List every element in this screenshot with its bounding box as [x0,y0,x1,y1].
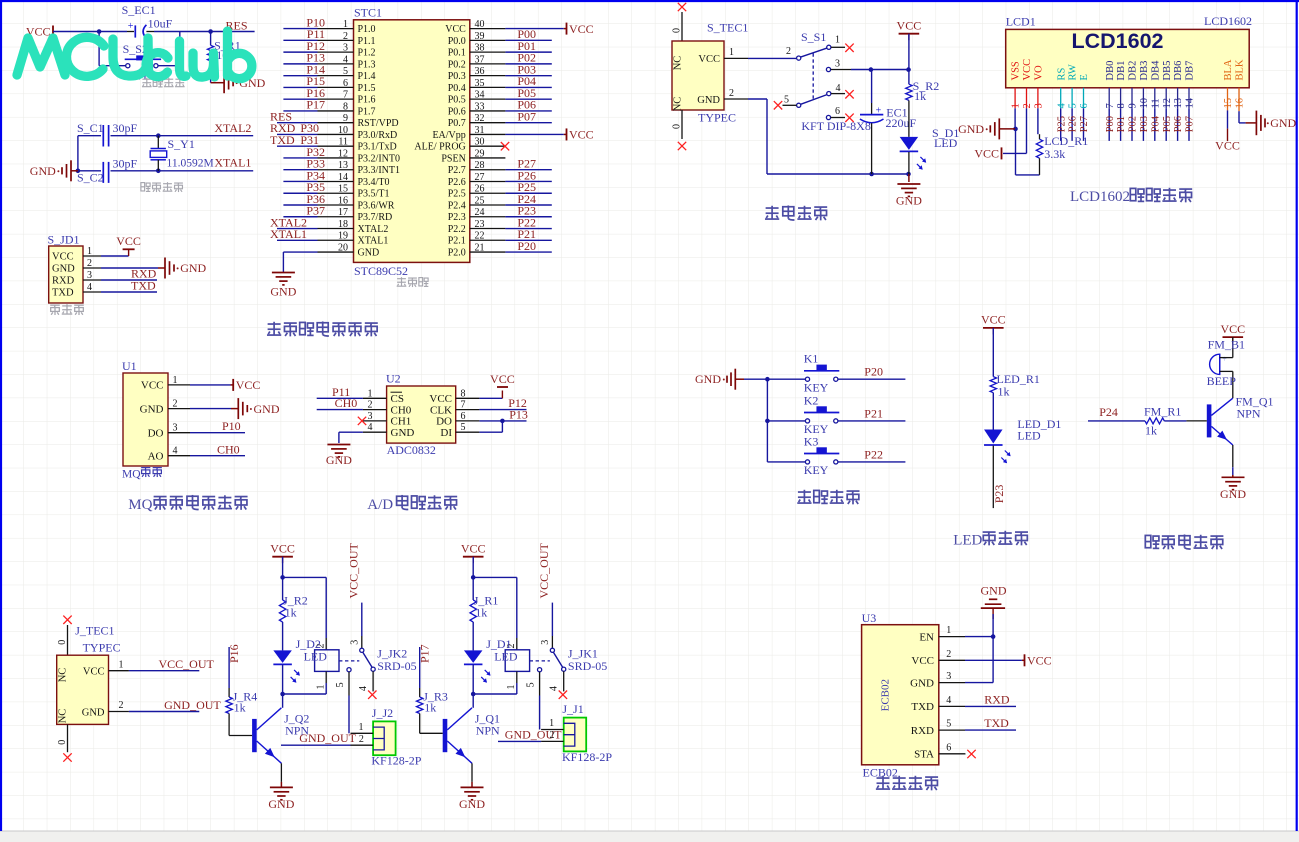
svg-text:0: 0 [57,740,68,745]
svg-text:12: 12 [338,148,348,159]
svg-text:6: 6 [1079,103,1090,108]
svg-text:XTAL2: XTAL2 [214,121,251,135]
svg-text:RXD: RXD [52,276,75,287]
svg-text:VCC: VCC [429,393,452,405]
svg-text:VCC: VCC [569,22,594,36]
svg-text:P1.5: P1.5 [358,83,376,94]
svg-text:GND: GND [896,194,922,208]
svg-text:1: 1 [1011,103,1022,108]
svg-text:S_S1: S_S1 [801,30,826,44]
svg-text:GND: GND [459,797,485,811]
svg-text:1: 1 [119,659,124,670]
svg-text:K1: K1 [804,352,819,366]
svg-text:1: 1 [729,47,734,58]
svg-text:LCD1602: LCD1602 [1071,29,1163,53]
svg-text:VCC: VCC [897,19,922,33]
svg-text:4: 4 [358,686,369,691]
svg-text:1: 1 [506,685,517,690]
svg-text:21: 21 [475,242,485,253]
svg-text:P06: P06 [1173,116,1184,132]
svg-text:S_C1: S_C1 [77,121,104,135]
svg-text:LED: LED [494,649,518,663]
svg-text:VCC: VCC [1027,654,1052,668]
svg-text:32: 32 [475,113,485,124]
svg-text:E: E [1079,74,1090,80]
svg-text:KF128-2P: KF128-2P [562,750,612,764]
svg-text:VCC: VCC [116,234,141,248]
svg-text:VCC: VCC [461,542,486,556]
svg-text:13: 13 [1173,98,1184,109]
svg-text:LCD1: LCD1 [1006,15,1036,29]
svg-text:DO: DO [436,416,452,428]
svg-text:23: 23 [475,219,485,230]
svg-text:P2.4: P2.4 [448,200,466,211]
svg-text:P1.1: P1.1 [358,36,376,47]
svg-text:P0.0: P0.0 [448,36,466,47]
svg-text:5: 5 [526,682,537,687]
svg-text:KFT DIP-8X8: KFT DIP-8X8 [801,119,870,133]
svg-text:3: 3 [173,423,178,434]
svg-text:RXD: RXD [911,725,934,737]
svg-text:P0.6: P0.6 [448,106,466,117]
svg-text:2: 2 [173,399,178,410]
svg-text:STC89C52: STC89C52 [354,264,408,278]
svg-text:5: 5 [946,719,951,730]
svg-text:GND: GND [958,122,984,136]
svg-text:RW: RW [1068,64,1079,80]
svg-text:NC: NC [57,668,68,683]
svg-text:GND: GND [391,427,415,439]
svg-text:P21: P21 [864,406,883,420]
svg-text:2: 2 [946,649,951,660]
svg-text:U2: U2 [386,372,401,386]
svg-text:DB5: DB5 [1162,61,1173,81]
svg-text:MQ: MQ [122,469,141,481]
svg-text:VCC_OUT: VCC_OUT [347,542,361,598]
svg-text:8: 8 [461,388,466,399]
svg-text:VCC: VCC [445,24,466,35]
svg-text:VCC: VCC [1215,138,1240,152]
svg-text:P0.7: P0.7 [448,118,466,129]
svg-text:4: 4 [836,83,841,94]
svg-text:P3.7/RD: P3.7/RD [358,212,393,223]
svg-text:GND: GND [52,264,75,275]
svg-text:STA: STA [914,749,934,761]
svg-text:U1: U1 [122,359,137,373]
svg-text:4: 4 [946,695,951,706]
svg-text:TXD: TXD [911,701,934,713]
svg-text:GND_OUT: GND_OUT [299,731,356,745]
svg-text:P2.2: P2.2 [448,224,466,235]
svg-text:15: 15 [1223,98,1234,109]
svg-text:2: 2 [368,400,373,411]
svg-text:DO: DO [148,427,164,439]
svg-text:P2.1: P2.1 [448,236,466,247]
svg-text:DB6: DB6 [1173,61,1184,81]
svg-text:1k: 1k [234,701,246,715]
svg-text:VCC: VCC [490,372,515,386]
svg-text:30pF: 30pF [113,157,138,171]
svg-text:LED: LED [953,533,982,549]
svg-text:P10: P10 [222,419,241,433]
svg-text:P0.2: P0.2 [448,59,466,70]
svg-text:6: 6 [946,743,951,754]
svg-text:RXD: RXD [984,692,1010,706]
svg-text:GND: GND [254,402,280,416]
svg-text:TXD: TXD [52,288,74,299]
svg-text:AO: AO [148,450,164,462]
svg-text:S_JD1: S_JD1 [48,233,80,247]
svg-text:LED: LED [934,136,958,150]
svg-text:27: 27 [475,172,485,183]
svg-text:30pF: 30pF [113,121,138,135]
svg-text:VCC: VCC [974,147,999,161]
svg-text:GND: GND [358,247,380,258]
svg-text:XTAL1: XTAL1 [270,227,307,241]
svg-text:FM_B1: FM_B1 [1208,338,1245,352]
svg-text:GND: GND [695,372,721,386]
svg-text:P17: P17 [306,98,325,112]
svg-text:STC1: STC1 [354,6,382,20]
svg-text:P0.5: P0.5 [448,95,466,106]
svg-text:KEY: KEY [804,380,829,394]
svg-text:28: 28 [475,160,485,171]
svg-text:P27: P27 [1079,116,1090,132]
svg-text:4: 4 [368,422,373,433]
svg-text:6: 6 [461,411,466,422]
svg-text:2: 2 [729,88,734,99]
svg-text:8: 8 [343,101,348,112]
svg-text:TYPEC: TYPEC [83,641,121,655]
svg-text:P20: P20 [517,239,536,253]
svg-text:GND: GND [30,164,56,178]
svg-text:1: 1 [359,722,364,733]
svg-text:1k: 1k [424,701,436,715]
svg-text:14: 14 [338,172,348,183]
svg-text:VCC_OUT: VCC_OUT [537,542,551,598]
svg-text:P03: P03 [1139,116,1150,132]
svg-text:S_EC1: S_EC1 [122,3,156,17]
svg-text:3: 3 [835,58,840,69]
svg-text:XTAL1: XTAL1 [358,236,389,247]
svg-text:P0.4: P0.4 [448,83,466,94]
svg-text:P22: P22 [864,447,883,461]
svg-text:TXD: TXD [131,278,156,292]
svg-text:40: 40 [475,19,485,30]
svg-text:S_TEC1: S_TEC1 [707,21,748,35]
svg-text:0: 0 [57,640,68,645]
svg-text:14: 14 [1185,97,1196,108]
svg-text:3: 3 [87,270,92,281]
svg-text:4: 4 [1056,103,1067,109]
svg-text:DB3: DB3 [1139,61,1150,81]
svg-text:GND: GND [1270,116,1296,130]
svg-text:P1.6: P1.6 [358,95,376,106]
svg-text:RST/VPD: RST/VPD [358,118,399,129]
svg-text:EN: EN [919,631,934,643]
svg-text:CH1: CH1 [391,416,412,428]
svg-text:DB7: DB7 [1185,61,1196,81]
svg-text:4: 4 [343,54,348,65]
svg-text:LCD_R1: LCD_R1 [1044,134,1088,148]
svg-text:P23: P23 [992,485,1006,504]
svg-text:BLK: BLK [1235,59,1246,80]
svg-text:CH0: CH0 [391,404,412,416]
svg-text:220uF: 220uF [886,116,917,130]
svg-text:3: 3 [368,411,373,422]
svg-text:5: 5 [784,94,789,105]
svg-text:9: 9 [1128,103,1139,108]
svg-text:5: 5 [335,682,346,687]
svg-text:GND: GND [180,261,206,275]
svg-text:29: 29 [475,148,485,159]
svg-text:GND: GND [326,453,352,467]
svg-text:P0.3: P0.3 [448,71,466,82]
svg-text:30: 30 [475,137,485,148]
svg-text:CH0: CH0 [217,442,240,456]
svg-text:BEEP: BEEP [1207,374,1237,388]
svg-text:P26: P26 [1068,116,1079,132]
svg-text:22: 22 [475,231,485,242]
svg-text:7: 7 [1105,103,1116,108]
svg-text:P3.5/T1: P3.5/T1 [358,189,390,200]
svg-text:XTAL1: XTAL1 [214,156,251,170]
svg-text:P1.2: P1.2 [358,48,376,59]
svg-text:P1.3: P1.3 [358,59,376,70]
svg-text:P2.7: P2.7 [448,165,466,176]
svg-text:25: 25 [475,195,485,206]
svg-text:2: 2 [1022,103,1033,108]
svg-text:SRD-05: SRD-05 [568,659,607,673]
svg-text:P01: P01 [1116,116,1127,132]
svg-text:2: 2 [119,700,124,711]
svg-text:12: 12 [1162,98,1173,109]
svg-text:K2: K2 [804,393,819,407]
svg-text:DB0: DB0 [1105,61,1116,81]
svg-text:FM_R1: FM_R1 [1144,404,1181,418]
svg-text:1: 1 [368,388,373,399]
svg-text:2: 2 [786,46,791,57]
svg-text:DB2: DB2 [1128,61,1139,81]
svg-text:CH0: CH0 [335,396,358,410]
svg-text:+: + [128,21,134,32]
svg-text:1k: 1k [998,384,1010,398]
svg-text:7: 7 [343,90,348,101]
svg-text:GND: GND [910,677,934,689]
svg-text:7: 7 [461,400,466,411]
svg-text:26: 26 [475,184,485,195]
svg-text:P07: P07 [517,109,536,123]
svg-text:1k: 1k [914,89,926,103]
svg-text:6: 6 [343,78,348,89]
svg-text:LED: LED [1017,429,1041,443]
svg-text:J_J1: J_J1 [562,702,583,716]
svg-text:10uF: 10uF [148,16,173,30]
svg-text:DI: DI [440,427,452,439]
svg-text:24: 24 [475,207,485,218]
svg-text:DB4: DB4 [1150,60,1161,81]
svg-text:3: 3 [540,640,551,645]
svg-text:+: + [1222,355,1227,364]
svg-text:P07: P07 [1185,116,1196,132]
svg-text:2: 2 [550,730,555,741]
svg-text:J_TEC1: J_TEC1 [75,624,114,638]
svg-text:3: 3 [1034,103,1045,108]
svg-text:1k: 1k [285,606,297,620]
svg-text:3: 3 [349,640,360,645]
svg-text:VCC: VCC [981,313,1006,327]
svg-text:BLA: BLA [1223,59,1234,80]
svg-text:A/D: A/D [367,497,393,513]
svg-text:2: 2 [343,31,348,42]
svg-text:P00: P00 [1105,116,1116,132]
svg-text:VCC: VCC [698,54,720,65]
svg-text:KEY: KEY [804,463,829,477]
svg-text:P1.0: P1.0 [358,24,376,35]
svg-text:1k: 1k [1145,424,1157,438]
svg-text:KF128-2P: KF128-2P [371,754,421,768]
svg-text:VCC: VCC [236,378,261,392]
svg-text:VCC: VCC [911,655,934,667]
svg-text:16: 16 [338,195,348,206]
svg-text:SRD-05: SRD-05 [377,659,416,673]
svg-text:15: 15 [338,184,348,195]
svg-text:+: + [876,106,882,117]
svg-text:GND: GND [140,403,164,415]
svg-text:37: 37 [475,54,485,65]
svg-text:LCD1602: LCD1602 [1070,189,1130,205]
svg-text:J_J2: J_J2 [372,706,393,720]
svg-text:ECB02: ECB02 [880,679,892,711]
svg-text:P1.7: P1.7 [358,106,376,117]
svg-text:P3.1/TxD: P3.1/TxD [358,142,397,153]
svg-text:P3.6/WR: P3.6/WR [358,200,395,211]
svg-text:P0.1: P0.1 [448,48,466,59]
svg-text:VCC: VCC [1022,59,1033,81]
svg-text:VCC: VCC [270,542,295,556]
svg-text:0: 0 [671,124,682,129]
svg-text:NC: NC [57,709,68,724]
svg-text:3.3k: 3.3k [1044,147,1065,161]
svg-text:NPN: NPN [476,723,500,737]
svg-text:9: 9 [343,113,348,124]
svg-text:P04: P04 [1150,115,1161,132]
svg-text:RS: RS [1056,67,1067,80]
svg-text:P3.3/INT1: P3.3/INT1 [358,165,401,176]
svg-text:1: 1 [173,375,178,386]
svg-text:31: 31 [475,125,485,136]
svg-text:EA/Vpp: EA/Vpp [432,130,465,141]
svg-text:S_C2: S_C2 [77,170,104,184]
svg-text:11: 11 [1150,98,1161,108]
svg-text:XTAL2: XTAL2 [358,224,389,235]
svg-text:TXD: TXD [270,133,295,147]
svg-text:5: 5 [1068,103,1079,108]
svg-text:VO: VO [1034,65,1045,81]
svg-text:1: 1 [87,246,92,257]
svg-text:TXD: TXD [984,716,1009,730]
svg-text:39: 39 [475,31,485,42]
svg-text:3: 3 [946,671,951,682]
svg-text:GND: GND [981,583,1007,597]
svg-text:18: 18 [338,219,348,230]
svg-text:P02: P02 [1128,116,1139,132]
svg-text:GND: GND [82,707,105,718]
svg-text:1: 1 [946,625,951,636]
svg-text:6: 6 [835,106,840,117]
svg-text:ADC0832: ADC0832 [387,443,436,457]
svg-text:P37: P37 [306,204,325,218]
svg-text:NPN: NPN [1237,406,1261,420]
svg-text:LED: LED [304,649,328,663]
svg-text:5: 5 [461,422,466,433]
svg-text:GND: GND [1220,487,1246,501]
svg-text:P2.3: P2.3 [448,212,466,223]
svg-text:P2.5: P2.5 [448,189,466,200]
svg-text:PSEN: PSEN [441,153,465,164]
svg-text:MQ: MQ [128,497,152,513]
svg-text:P2.6: P2.6 [448,177,466,188]
svg-text:8: 8 [1116,103,1127,108]
svg-text:4: 4 [549,686,560,691]
svg-text:4: 4 [87,282,92,293]
svg-text:P24: P24 [1099,405,1118,419]
svg-text:TYPEC: TYPEC [698,111,736,125]
svg-text:VSS: VSS [1011,61,1022,80]
svg-text:ALE/ PROG: ALE/ PROG [414,142,465,153]
svg-text:1: 1 [835,34,840,45]
svg-text:2: 2 [359,734,364,745]
svg-text:VCC_OUT: VCC_OUT [159,657,215,671]
svg-text:P3.4/T0: P3.4/T0 [358,177,390,188]
svg-text:P13: P13 [509,407,528,421]
svg-text:GND: GND [697,95,720,106]
svg-text:1k: 1k [475,606,487,620]
svg-text:GND_OUT: GND_OUT [164,698,221,712]
svg-text:P3.0/RxD: P3.0/RxD [358,130,398,141]
svg-text:2: 2 [87,258,92,269]
svg-text:3: 3 [343,43,348,54]
svg-text:1: 1 [315,685,326,690]
svg-text:35: 35 [475,78,485,89]
svg-text:17: 17 [338,207,348,218]
svg-text:19: 19 [338,231,348,242]
svg-text:NC: NC [673,97,684,112]
svg-text:11.0592M: 11.0592M [167,157,214,169]
svg-text:0: 0 [671,28,682,33]
svg-text:VCC: VCC [1220,322,1245,336]
svg-text:10: 10 [338,125,348,136]
svg-text:NC: NC [673,56,684,71]
svg-text:VCC: VCC [569,128,594,142]
svg-text:VCC: VCC [83,667,105,678]
svg-text:20: 20 [338,242,348,253]
svg-text:P3.2/INT0: P3.2/INT0 [358,153,401,164]
svg-text:VCC: VCC [52,252,74,263]
svg-text:CLK: CLK [430,404,452,416]
svg-text:GND: GND [270,285,296,299]
svg-text:10: 10 [1139,98,1150,109]
svg-text:U3: U3 [862,611,877,625]
svg-text:GND: GND [268,797,294,811]
svg-text:5: 5 [343,66,348,77]
svg-text:34: 34 [475,90,485,101]
svg-text:33: 33 [475,101,485,112]
svg-text:P05: P05 [1162,116,1173,132]
svg-text:CS: CS [391,393,404,405]
svg-text:13: 13 [338,160,348,171]
svg-text:VCC: VCC [141,380,164,392]
